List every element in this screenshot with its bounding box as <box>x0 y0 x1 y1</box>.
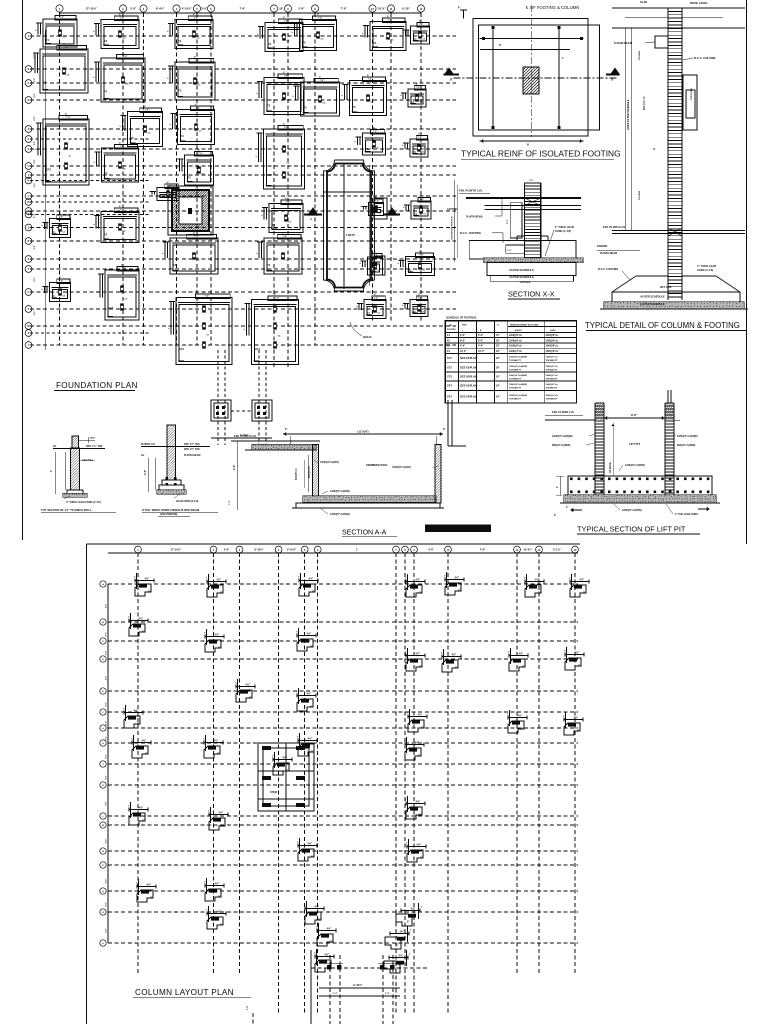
footing F2 at grid (368,98) <box>342 74 387 116</box>
svg-text:9": 9" <box>458 591 460 593</box>
footing F1 at grid (60,228) <box>42 212 71 238</box>
svg-text:8#6@8"c/c: 8#6@8"c/c <box>309 466 311 478</box>
svg-text:7'-6": 7'-6" <box>275 298 279 300</box>
svg-text:10#8@6"c/c(B/W): 10#8@6"c/c(B/W) <box>509 395 527 397</box>
column C34 at (313,914) <box>304 901 324 924</box>
column C14 at (573,660) <box>564 647 584 670</box>
svg-text:4½": 4½" <box>139 617 144 621</box>
svg-text:10#8@6"c/c(B/F): 10#8@6"c/c(B/F) <box>392 466 411 469</box>
section X-X labels <box>451 180 575 262</box>
TYPICAL DETAIL OF COLUMN & FOOTING title <box>585 321 747 331</box>
svg-text:4½": 4½" <box>309 577 314 581</box>
svg-text:F2: F2 <box>373 41 377 45</box>
column detail RCC column ladder <box>668 8 682 300</box>
footing F1 at grid (419,148) <box>403 133 429 158</box>
svg-text:F1: F1 <box>413 310 417 314</box>
column C15 at (244,692) <box>235 679 255 702</box>
footing F1 at grid (60,33) <box>36 13 78 48</box>
footing F3 at grid (195,81) <box>168 56 216 101</box>
svg-text:F1: F1 <box>366 147 370 151</box>
column C16 at (305,701) <box>296 688 316 711</box>
svg-text:HOLD: HOLD <box>363 335 372 339</box>
svg-text:4'-6": 4'-6" <box>460 345 465 348</box>
svg-text:1.5M TK: 1.5M TK <box>346 234 355 237</box>
svg-text:7'-6": 7'-6" <box>121 268 125 270</box>
svg-text:20": 20" <box>496 366 500 369</box>
isolated footing rebar lines <box>480 26 584 147</box>
svg-text:1'-0": 1'-0" <box>229 500 231 505</box>
svg-text:4": 4" <box>458 7 460 10</box>
footing F1 at grid (168,194) <box>150 181 180 201</box>
svg-text:4'-6": 4'-6" <box>233 465 236 470</box>
svg-text:9'-0": 9'-0" <box>106 651 108 655</box>
svg-text:9'-0": 9'-0" <box>34 245 36 249</box>
svg-text:9": 9" <box>312 592 314 594</box>
svg-text:TOP&BOTT: TOP&BOTT <box>509 388 522 390</box>
svg-text:7'-6": 7'-6" <box>368 79 372 81</box>
svg-text:9": 9" <box>220 925 222 927</box>
svg-text:12#8@4"c/c: 12#8@4"c/c <box>509 350 523 353</box>
svg-text:16#8@6"c/c: 16#8@6"c/c <box>546 375 559 377</box>
brick D2 title <box>142 508 218 517</box>
svg-text:4½": 4½" <box>580 578 585 582</box>
column C25 at (281,765) <box>272 752 292 775</box>
pedestal link grid lines <box>211 350 272 445</box>
column C38 at (401,939) <box>385 926 412 949</box>
column plan vertical grid lines <box>138 553 575 1013</box>
svg-text:5'-0": 5'-0" <box>224 548 230 552</box>
svg-text:GF1: GF1 <box>46 167 52 171</box>
svg-text:4½": 4½" <box>315 905 320 909</box>
svg-text:AS PER SCHEDULE: AS PER SCHEDULE <box>509 268 534 272</box>
svg-text:4½": 4½" <box>575 651 580 655</box>
svg-text:10'-5¼": 10'-5¼" <box>523 548 533 552</box>
column C28 at (306,851) <box>297 838 317 861</box>
svg-text:COLUMN LAYOUT PLAN: COLUMN LAYOUT PLAN <box>135 988 234 997</box>
column C8 at (137,626) <box>128 613 148 636</box>
svg-text:6": 6" <box>554 515 556 517</box>
sheet2 left grid bubbles <box>100 581 108 946</box>
svg-text:12#8@8"c/c: 12#8@8"c/c <box>546 335 560 337</box>
svg-text:4½": 4½" <box>519 652 524 656</box>
column C20 at (572,725) <box>563 712 583 735</box>
svg-text:FOOTING: FOOTING <box>447 329 456 331</box>
combined footing GF1 <box>36 113 90 186</box>
left grid bubbles sheet1 <box>25 30 45 350</box>
svg-text:TYPICAL DETAIL OF COLUMN & FOO: TYPICAL DETAIL OF COLUMN & FOOTING <box>585 321 740 330</box>
svg-text:7'-6": 7'-6" <box>374 298 378 300</box>
svg-text:9": 9" <box>218 648 220 650</box>
svg-text:SIZE AS/PLAN: SIZE AS/PLAN <box>460 396 477 399</box>
svg-text:16#8@6"c/c: 16#8@6"c/c <box>546 384 559 386</box>
svg-text:9": 9" <box>522 667 524 669</box>
column C21 at (140,748) <box>131 735 151 758</box>
svg-text:7'-6": 7'-6" <box>239 7 246 11</box>
section A-A left slab <box>245 445 316 451</box>
svg-text:F4: F4 <box>43 80 47 84</box>
column C36 at (323,962) <box>314 949 334 972</box>
svg-text:TOP&BOTT: TOP&BOTT <box>509 360 522 362</box>
svg-text:9'-0": 9'-0" <box>106 736 108 740</box>
svg-text:7'-6": 7'-6" <box>66 117 70 119</box>
svg-text:(ON PODIUM): (ON PODIUM) <box>160 512 177 516</box>
svg-text:200 MAX: 200 MAX <box>638 190 641 200</box>
column plan horizontal grid lines <box>108 584 578 968</box>
svg-text:9": 9" <box>222 826 224 828</box>
svg-text:7'-6": 7'-6" <box>64 47 68 49</box>
svg-text:℄ OF FOOTING & COLUMN: ℄ OF FOOTING & COLUMN <box>525 5 579 10</box>
column C22 at (212,748) <box>203 735 223 758</box>
svg-text:DPC 1½" THK: DPC 1½" THK <box>86 444 103 448</box>
section X-X plinth beam rect <box>507 203 522 238</box>
HOLD note <box>350 322 372 339</box>
section marker X right <box>606 68 620 82</box>
isolated footing column (hatched) <box>523 67 539 94</box>
svg-text:SCHEDULE OF FOOTINGS: SCHEDULE OF FOOTINGS <box>446 317 477 320</box>
bottom column pair dots right <box>378 963 396 970</box>
svg-text:TYPICAL SECTION OF LIFT PIT: TYPICAL SECTION OF LIFT PIT <box>577 525 686 534</box>
column C11 at (414,661) <box>405 648 425 671</box>
svg-text:8'-6": 8'-6" <box>631 413 638 417</box>
svg-text:FLOOR BEAM: FLOOR BEAM <box>614 41 633 45</box>
svg-text:24": 24" <box>496 357 500 360</box>
svg-text:GF2: GF2 <box>267 173 273 177</box>
svg-text:TOP&BOTT: TOP&BOTT <box>546 399 559 401</box>
svg-text:4½": 4½" <box>452 653 457 657</box>
TYPICAL SECTION OF LIFT PIT title <box>577 525 700 534</box>
svg-text:4½": 4½" <box>327 927 332 931</box>
svg-text:7'-6": 7'-6" <box>318 18 322 20</box>
svg-text:9'-0": 9'-0" <box>34 78 36 82</box>
svg-text:10'-0": 10'-0" <box>478 350 485 353</box>
svg-text:9'-0": 9'-0" <box>106 839 108 843</box>
column C26 at (137,815) <box>128 802 148 825</box>
svg-text:FOR SIZE: FOR SIZE <box>520 282 531 284</box>
FOUNDATION PLAN title <box>54 381 138 391</box>
section A-A bottom slabs <box>292 496 444 508</box>
svg-text:4½": 4½" <box>411 907 416 911</box>
svg-text:9'-0": 9'-0" <box>106 902 108 906</box>
combined footing GF4 <box>244 293 299 365</box>
svg-text:9'-0": 9'-0" <box>106 702 108 706</box>
svg-text:18': 18' <box>279 7 283 11</box>
svg-text:F1: F1 <box>414 37 418 41</box>
svg-text:9": 9" <box>407 922 409 924</box>
footing F4 at grid (123,80) <box>94 52 146 103</box>
svg-text:1'-6": 1'-6" <box>529 180 533 182</box>
svg-text:FIN. PLINTH LVL: FIN. PLINTH LVL <box>459 189 483 193</box>
svg-text:6'-10": 6'-10" <box>402 7 410 11</box>
footing F2 at grid (284,37) <box>258 16 304 52</box>
svg-text:4½": 4½" <box>283 756 288 760</box>
svg-text:SIZE AS/PLAN: SIZE AS/PLAN <box>460 357 477 360</box>
svg-text:5'-0": 5'-0" <box>130 7 137 11</box>
svg-text:9'-0": 9'-0" <box>106 754 108 758</box>
svg-text:1'-6": 1'-6" <box>385 993 390 995</box>
svg-text:4½": 4½" <box>417 843 422 847</box>
svg-text:TOP&BOTT: TOP&BOTT <box>546 369 559 371</box>
column C32 at (213,891) <box>204 878 224 901</box>
svg-text:4½": 4½" <box>215 633 220 637</box>
svg-text:7'-6": 7'-6" <box>120 146 124 148</box>
svg-text:M: M <box>28 201 30 204</box>
top dimension line sheet1 <box>56 5 425 15</box>
svg-text:F2: F2 <box>178 39 182 43</box>
svg-text:M: M <box>102 825 104 827</box>
svg-text:9'-0": 9'-0" <box>34 159 36 163</box>
svg-text:F1: F1 <box>411 100 415 104</box>
column C18 at (416,722) <box>407 709 427 732</box>
column detail floor beam <box>614 36 668 48</box>
svg-text:SIZE AS/PLAN: SIZE AS/PLAN <box>460 385 477 388</box>
footing F2 at grid (120,165) <box>94 142 139 183</box>
svg-text:B: B <box>28 68 30 71</box>
svg-text:F2: F2 <box>104 39 108 43</box>
svg-text:4'-10½": 4'-10½" <box>182 7 193 11</box>
column & footing detail right border <box>746 0 748 544</box>
svg-text:5'-8": 5'-8" <box>247 1005 249 1010</box>
svg-text:4½": 4½" <box>147 883 152 887</box>
column C4 at (414,587) <box>405 574 425 597</box>
svg-text:Q: Q <box>102 891 104 893</box>
column C33 at (215,919) <box>206 906 226 929</box>
svg-text:16#8@6"c/c: 16#8@6"c/c <box>546 395 559 397</box>
svg-text:7'-6": 7'-6" <box>123 56 127 58</box>
svg-text:9'-0": 9'-0" <box>106 676 108 680</box>
svg-text:7'-6": 7'-6" <box>285 202 289 204</box>
footing F2 at grid (120,34) <box>94 13 140 49</box>
svg-text:1'-0": 1'-0" <box>507 250 511 252</box>
foundation plan horizontal grid lines <box>30 36 456 345</box>
svg-text:7'-6": 7'-6" <box>418 137 422 139</box>
section A-A left wall <box>304 445 319 499</box>
svg-text:9'-0": 9'-0" <box>34 277 36 281</box>
svg-text:H: H <box>28 165 30 168</box>
column C2 at (215,587) <box>206 574 226 597</box>
svg-text:F4: F4 <box>104 89 108 93</box>
svg-text:A: A <box>310 217 312 221</box>
svg-text:9": 9" <box>311 752 313 754</box>
svg-text:SECTION X-X: SECTION X-X <box>508 289 555 298</box>
TYPICAL REINF OF ISOLATED FOOTING title <box>461 149 621 160</box>
combined footing CF1 big <box>169 291 233 365</box>
svg-text:F1: F1 <box>413 150 417 154</box>
svg-text:9'-0": 9'-0" <box>106 775 108 779</box>
svg-text:2'-6": 2'-6" <box>298 7 305 11</box>
footing F5 at grid (145,129) <box>120 105 163 147</box>
pedestal CF2 with dowels <box>211 400 231 421</box>
svg-text:9": 9" <box>396 945 398 947</box>
svg-text:F2: F2 <box>353 105 357 109</box>
svg-text:7'-6": 7'-6" <box>59 281 63 283</box>
svg-text:FIN. PLINTH LVL: FIN. PLINTH LVL <box>234 434 257 438</box>
svg-text:9": 9" <box>285 428 287 431</box>
svg-text:F2: F2 <box>104 233 108 237</box>
footing F2 at grid (286,218) <box>262 197 304 233</box>
centerline of footing & column <box>454 5 618 137</box>
svg-text:10'-6": 10'-6" <box>460 350 467 353</box>
column C24 at (413,750) <box>404 737 424 760</box>
svg-text:PLINTH BEAM: PLINTH BEAM <box>466 216 482 219</box>
section X-X plinth level line <box>447 189 581 219</box>
svg-text:9": 9" <box>443 428 445 431</box>
svg-text:R.C.C. COLUMN: R.C.C. COLUMN <box>694 56 715 60</box>
svg-text:9": 9" <box>145 754 147 756</box>
svg-text:CF3: CF3 <box>447 376 452 379</box>
column C17 at (132,718) <box>123 705 143 728</box>
column C13 at (517,661) <box>508 648 528 671</box>
svg-text:CONC.(1:4:8): CONC.(1:4:8) <box>555 229 571 233</box>
svg-text:LONG: LONG <box>550 330 556 332</box>
svg-text:10#8@6"c/c(B/W): 10#8@6"c/c(B/W) <box>509 366 527 368</box>
svg-text:9'-0": 9'-0" <box>106 879 108 883</box>
svg-text:7'-6": 7'-6" <box>284 21 288 23</box>
svg-text:TYPICAL REINF OF ISOLATED FOOT: TYPICAL REINF OF ISOLATED FOOTING <box>461 149 621 159</box>
svg-text:8#8@6"c/c(B/W): 8#8@6"c/c(B/W) <box>677 444 696 447</box>
column C10 at (305,641) <box>296 628 316 651</box>
svg-text:9": 9" <box>150 898 152 900</box>
svg-text:F3: F3 <box>173 263 177 267</box>
footing F1 at grid (376,209) <box>361 196 384 216</box>
svg-text:9": 9" <box>217 754 219 756</box>
svg-text:2'-6": 2'-6" <box>428 548 434 552</box>
svg-text:9'-0": 9'-0" <box>34 311 36 315</box>
footing F1 at grid (375,309) <box>357 293 387 319</box>
svg-text:AS PER SCHEDULE: AS PER SCHEDULE <box>640 302 665 306</box>
svg-text:TOP&BOTT: TOP&BOTT <box>546 379 559 381</box>
svg-text:9'-10½": 9'-10½" <box>353 983 363 987</box>
svg-text:9": 9" <box>137 724 139 726</box>
svg-text:LIFT: LIFT <box>273 764 279 767</box>
svg-text:4½": 4½" <box>246 683 251 687</box>
svg-text:6'-0": 6'-0" <box>460 334 465 337</box>
svg-text:20": 20" <box>496 339 500 342</box>
svg-text:7'-6": 7'-6" <box>419 255 423 257</box>
svg-text:9": 9" <box>142 821 144 823</box>
svg-text:10#8@8"c/c: 10#8@8"c/c <box>546 346 560 348</box>
footing F1 at grid (420,266) <box>398 250 435 276</box>
svg-text:8#6@8"c/c: 8#6@8"c/c <box>296 468 298 480</box>
svg-text:4½": 4½" <box>214 739 219 743</box>
column C37 at (412,916) <box>396 903 423 926</box>
svg-text:10#8@6"c/c(B/F): 10#8@6"c/c(B/F) <box>320 461 339 464</box>
svg-text:4½": 4½" <box>399 954 404 958</box>
svg-text:15": 15" <box>496 334 500 337</box>
swimming pool / lift shaft obround <box>324 160 388 291</box>
svg-text:4½": 4½" <box>518 714 523 718</box>
svg-text:12#8@6"c/c: 12#8@6"c/c <box>546 340 560 342</box>
svg-text:6'-4½": 6'-4½" <box>156 7 165 11</box>
svg-text:9'-0": 9'-0" <box>106 604 108 608</box>
svg-text:4" THK LEAN CONC.: 4" THK LEAN CONC. <box>675 513 699 516</box>
svg-text:SWIMMING POOL: SWIMMING POOL <box>366 463 388 467</box>
column detail footing <box>598 264 748 309</box>
svg-text:K: K <box>28 180 30 183</box>
svg-text:F2: F2 <box>303 41 307 45</box>
svg-text:6'-0": 6'-0" <box>478 334 483 337</box>
svg-text:4½": 4½" <box>418 713 423 717</box>
svg-text:7'-6": 7'-6" <box>284 76 288 78</box>
svg-text:PLINTH BEAM: PLINTH BEAM <box>600 252 617 255</box>
footing F2 at grid (284,96) <box>257 71 305 115</box>
svg-text:F2: F2 <box>272 223 276 227</box>
stair/lift column cluster <box>258 743 314 811</box>
svg-text:AGG FILL: AGG FILL <box>82 459 94 462</box>
svg-text:4½": 4½" <box>574 716 579 720</box>
footing F1 at grid (374,144) <box>355 127 386 156</box>
svg-text:F1: F1 <box>46 38 50 42</box>
footing F2 at grid (318,35) <box>292 13 337 51</box>
svg-text:CF1: CF1 <box>447 357 452 360</box>
svg-text:16#8@6"c/c: 16#8@6"c/c <box>546 357 559 359</box>
svg-text:GF3: GF3 <box>108 306 114 310</box>
svg-text:10#8@6"c/c(B/W): 10#8@6"c/c(B/W) <box>509 357 527 359</box>
footing F2 at grid (120,227) <box>94 205 140 243</box>
footing F1 at grid (421,210) <box>404 195 432 220</box>
svg-text:9": 9" <box>218 897 220 899</box>
sheet 1 border left <box>22 0 24 540</box>
svg-text:12#8@8"c/c: 12#8@8"c/c <box>509 335 523 337</box>
svg-text:4" THICK LEAN: 4" THICK LEAN <box>555 225 574 229</box>
combined footing GF2 <box>256 123 305 190</box>
pedestal CF3 with dowels <box>252 400 272 421</box>
section X-X column ladder <box>524 180 540 261</box>
column C31 at (145,892) <box>136 879 156 902</box>
svg-text:DPC 1½" THK: DPC 1½" THK <box>184 447 200 451</box>
svg-text:9": 9" <box>310 647 312 649</box>
svg-text:24": 24" <box>496 376 500 379</box>
svg-text:F2: F2 <box>267 103 271 107</box>
svg-text:F3: F3 <box>181 134 185 138</box>
svg-text:LEAN CONC(1:4:8): LEAN CONC(1:4:8) <box>176 500 199 503</box>
column C39 at (400,963) <box>384 950 411 973</box>
svg-text:9": 9" <box>578 666 580 668</box>
svg-text:4": 4" <box>566 506 568 509</box>
foundation plan vertical grid lines <box>60 13 422 368</box>
sheet2 top dimension line <box>108 546 578 556</box>
svg-text:COLUMN AS PER SCH.: COLUMN AS PER SCH. <box>451 216 454 240</box>
svg-text:12#8@6"c/c: 12#8@6"c/c <box>509 346 523 348</box>
svg-text:5'-1½": 5'-1½" <box>553 548 562 552</box>
svg-text:F3: F3 <box>178 89 182 93</box>
SECTION X-X title <box>508 289 560 299</box>
svg-text:A: A <box>28 35 30 38</box>
brick wall section detail D1 <box>50 436 105 504</box>
svg-text:8#8@6"c/c(B/W): 8#8@6"c/c(B/W) <box>552 444 571 447</box>
svg-text:9": 9" <box>249 698 251 700</box>
svg-text:CF1: CF1 <box>179 347 185 351</box>
svg-text:SECTION A-A: SECTION A-A <box>342 530 387 537</box>
footing F2 at grid (388,36) <box>363 15 407 51</box>
svg-text:Q: Q <box>28 227 30 230</box>
svg-text:7'-6": 7'-6" <box>420 199 424 201</box>
section A-A dims and labels <box>229 428 445 516</box>
svg-text:9": 9" <box>418 756 420 758</box>
svg-text:REINFORCEMENT BOTH WAY: REINFORCEMENT BOTH WAY <box>510 324 539 327</box>
svg-text:9": 9" <box>583 593 585 595</box>
svg-text:8T8 @ 6" c/c: 8T8 @ 6" c/c <box>644 96 646 110</box>
svg-text:TOP&BOTT: TOP&BOTT <box>509 369 522 371</box>
isolated footing detail outer square <box>473 19 600 137</box>
footing F1 at grid (417,98) <box>401 83 427 108</box>
svg-text:7'-6": 7'-6" <box>373 131 377 133</box>
svg-text:4½": 4½" <box>416 800 421 804</box>
svg-text:9'-0": 9'-0" <box>106 928 108 932</box>
svg-text:9'-0": 9'-0" <box>106 632 108 636</box>
svg-text:GL: GL <box>53 444 57 448</box>
footing F2 at grid (320,99) <box>293 76 340 117</box>
svg-text:24": 24" <box>496 396 500 399</box>
